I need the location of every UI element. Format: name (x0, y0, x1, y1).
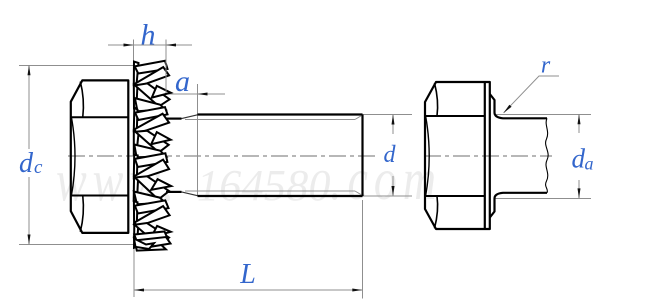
svg-text:r: r (541, 52, 551, 78)
svg-text:d: d (572, 144, 586, 174)
svg-text:a: a (585, 154, 594, 174)
svg-text:164580: 164580 (197, 161, 331, 210)
svg-text:L: L (239, 259, 256, 290)
svg-text:a: a (175, 65, 190, 98)
svg-text:h: h (141, 19, 156, 52)
svg-text:c: c (34, 157, 43, 178)
svg-text:d: d (19, 148, 34, 179)
svg-text:d: d (384, 142, 397, 168)
